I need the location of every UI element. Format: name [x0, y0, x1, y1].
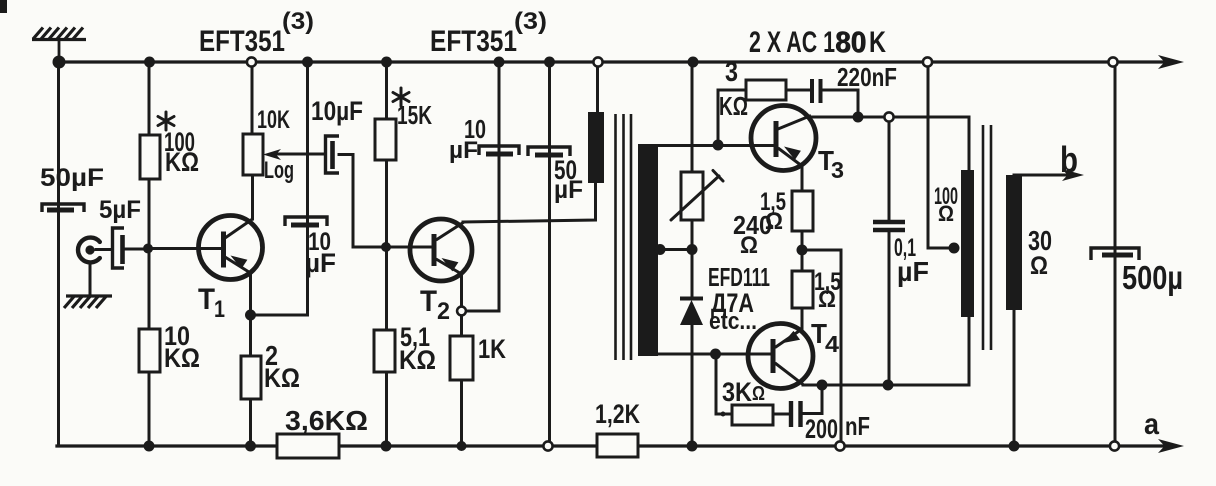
svg-text:(3): (3) — [514, 8, 547, 35]
svg-text:b: b — [1060, 139, 1078, 180]
node bottom rail 500u (ring) — [1110, 441, 1119, 450]
capacitor 5uF — [113, 228, 125, 268]
resistor R 1.2K (bottom rail) — [597, 434, 638, 457]
svg-text:2 X AC 1: 2 X AC 1 — [749, 26, 835, 59]
svg-text:EFT351: EFT351 — [430, 25, 517, 58]
wire bottom rail — [57, 444, 1163, 447]
node bottom rail 5.1K — [381, 441, 392, 452]
wire 5uF to base node — [125, 248, 148, 251]
resistor R 1.5 Ohm upper — [792, 191, 813, 231]
svg-text:KΩ: KΩ — [164, 343, 200, 373]
wire output secondary bottom — [1013, 310, 1016, 446]
capacitor 10uF T1 bypass — [285, 217, 327, 226]
svg-text:3K: 3K — [722, 377, 752, 407]
svg-text:µF: µF — [554, 176, 583, 204]
wire T2 collector to interstage primary — [463, 183, 596, 222]
node bottom rail secondary — [1009, 441, 1020, 452]
transformer TR2 core — [983, 125, 991, 350]
wire pot wiper tail — [276, 153, 325, 156]
svg-text:(3): (3) — [282, 8, 314, 35]
node emitters junction — [797, 245, 808, 256]
svg-text:etc...: etc... — [709, 308, 757, 335]
node top rail 15K — [381, 57, 392, 68]
wire T4 base from secondary bottom — [656, 353, 772, 356]
node top rail center-tap feed (ring) — [923, 57, 932, 66]
svg-text:4: 4 — [825, 331, 839, 357]
wire emitter junction to rail line — [802, 250, 841, 446]
node bottom rail emitters (ring) — [835, 441, 844, 450]
resistor R 3K (T4 feedback) — [732, 405, 773, 425]
wire output primary bottom stub — [968, 317, 971, 385]
transformer TR1 primary winding — [588, 112, 604, 183]
wire output secondary top to b — [1014, 174, 1066, 177]
ground top left — [32, 28, 86, 61]
resistor R 3.6K (bottom rail) — [277, 434, 339, 458]
wire interstage primary top — [596, 64, 599, 116]
wire 15K / T2 base / 5.1K branch — [385, 62, 388, 446]
svg-text:KΩ: KΩ — [264, 363, 300, 393]
node top rail T1 bypass — [302, 57, 313, 68]
resistor R 15K — [375, 119, 396, 160]
svg-text:3: 3 — [831, 157, 844, 183]
svg-text:Ω: Ω — [818, 286, 836, 313]
transistor T3 — [751, 106, 816, 171]
wire input jack to 5uF — [96, 248, 112, 251]
wire 1K branch — [460, 311, 463, 446]
node bias junction — [687, 244, 698, 255]
wire T1 base — [148, 247, 222, 250]
scan corner mark — [0, 0, 7, 13]
node T2 emitter (ring) — [457, 307, 466, 316]
svg-text:220nF: 220nF — [837, 62, 897, 92]
svg-text:10K: 10K — [257, 106, 290, 134]
node secondary center tap at winding — [655, 244, 666, 255]
wire T2 bypass cap vertical — [498, 62, 501, 311]
svg-text:KΩ: KΩ — [165, 147, 199, 177]
wire pot top — [251, 64, 254, 135]
wiper arrow — [263, 149, 281, 160]
wire output primary center tap feed — [928, 65, 954, 248]
node top rail 500u (ring) — [1108, 57, 1117, 66]
wire T1 emitter down — [249, 273, 252, 315]
svg-text:KΩ: KΩ — [399, 345, 436, 375]
node T2 base junction — [381, 242, 391, 252]
svg-text:Ω: Ω — [765, 208, 783, 235]
wire T4 collector line — [803, 384, 969, 387]
svg-text:µF: µF — [305, 248, 336, 278]
wire bias chain vertical — [691, 64, 694, 446]
svg-text:1,2K: 1,2K — [595, 399, 640, 429]
node top rail transformer (ring) — [593, 57, 602, 66]
capacitor 0.1uF — [873, 222, 905, 230]
node bottom rail diode — [687, 441, 698, 452]
svg-text:Ω: Ω — [752, 383, 765, 405]
svg-text:1: 1 — [214, 296, 225, 323]
wire 1.5 resistors common — [801, 231, 804, 271]
asterisk for 15K — [393, 88, 409, 106]
capacitor 10uF T2 bypass — [479, 146, 519, 155]
wire T2 emitter to bypass — [462, 310, 500, 313]
wire T3 collector line — [809, 116, 969, 119]
wire left vertical 50uF branch — [57, 62, 60, 446]
capacitor 220nF — [812, 79, 821, 103]
node top rail at ground — [53, 56, 66, 69]
svg-text:Log: Log — [264, 157, 294, 184]
resistor R 100K — [140, 135, 160, 179]
svg-text:a: a — [1144, 408, 1159, 441]
junction rings open — [247, 57, 1119, 450]
wire T3 base from secondary top — [656, 144, 775, 147]
input jack J1 — [78, 238, 100, 263]
wire T2 base — [386, 246, 435, 249]
svg-text:EFT351: EFT351 — [199, 25, 285, 58]
wire 2K branch — [249, 315, 252, 446]
node T4 collector 200nF tap — [817, 380, 828, 391]
node input to T1 base — [143, 244, 153, 254]
wire output primary top stub — [968, 117, 971, 171]
ground input — [64, 296, 112, 308]
wire T2 emitter down — [460, 274, 463, 311]
transformer TR2 primary winding — [961, 170, 974, 317]
wire 10uF coupling to down-leg — [339, 155, 386, 248]
resistor R 2K — [241, 356, 261, 399]
diode D1 — [680, 299, 703, 326]
node T4 base tap — [710, 349, 721, 360]
wire T1 emitter to bypass cap — [251, 314, 307, 317]
wire 500u branch — [1114, 62, 1117, 446]
wire jack to input ground — [89, 263, 92, 296]
transistor T2 — [410, 219, 472, 281]
svg-text:Ω: Ω — [740, 232, 758, 259]
node top rail bias — [688, 57, 699, 68]
svg-text:µF: µF — [449, 137, 478, 164]
svg-text:Ω: Ω — [938, 201, 954, 226]
svg-text:Ω: Ω — [1030, 252, 1048, 280]
node top rail 50uF — [544, 57, 555, 68]
svg-text:KΩ: KΩ — [719, 91, 748, 121]
resistor R 5.1K — [374, 330, 395, 372]
node bottom rail 1K — [457, 441, 467, 451]
wire 3K to 220nF — [786, 89, 809, 92]
transformer TR1 core — [616, 114, 632, 360]
svg-text:500µ: 500µ — [1122, 259, 1183, 296]
svg-text:10µF: 10µF — [311, 96, 363, 126]
node 0.1uF top (ring) — [884, 112, 893, 121]
output b arrow — [1062, 169, 1084, 181]
wire 200nF right to T4 collector — [803, 385, 822, 414]
wire secondary center tap — [656, 248, 692, 251]
svg-text:1K: 1K — [478, 334, 506, 364]
svg-text:µF: µF — [897, 256, 929, 287]
wire 0.1uF vertical — [888, 117, 891, 385]
wire T1 bypass cap vertical — [306, 62, 309, 315]
wire top rail — [59, 60, 1163, 63]
node top rail 100K — [144, 57, 155, 68]
potentiometer 10K — [243, 134, 263, 175]
resistor R 1K — [450, 336, 473, 380]
transistor T4 — [748, 324, 813, 389]
capacitor 50uF supply — [528, 147, 570, 156]
asterisk for 100K — [158, 112, 174, 130]
wire pot bottom to T1 collector — [251, 174, 254, 219]
junction dots filled — [53, 56, 1020, 452]
wire 3K T4 to 200nF — [773, 413, 789, 416]
node bottom rail 50uF (ring) — [543, 441, 552, 450]
rheostat 240 Ohm — [681, 172, 703, 220]
svg-text:nF: nF — [845, 411, 870, 441]
capacitor 50uF input (left branch) — [42, 204, 84, 212]
node 0.1uF bottom — [883, 380, 894, 391]
wire T3 emitter to 1.5 — [801, 166, 804, 191]
transistor T1 — [199, 216, 263, 280]
capacitor 500u — [1091, 248, 1139, 260]
node primary center tap — [949, 243, 960, 254]
wire 50uF supply branch — [548, 62, 551, 446]
node bottom rail 2K — [245, 441, 256, 452]
svg-text:3,6KΩ: 3,6KΩ — [285, 405, 368, 436]
svg-text:15K: 15K — [397, 100, 432, 130]
wire 220nF right to collector — [823, 90, 858, 117]
node top rail pot (ring) — [247, 57, 256, 66]
node T3 base tap — [713, 140, 724, 151]
resistor R 3K (T3 feedback) — [746, 80, 786, 100]
node 220nF tap on T3 collector — [853, 112, 864, 123]
svg-text:200: 200 — [805, 414, 838, 444]
svg-text:50µF: 50µF — [40, 164, 104, 192]
wire 3K feedback T4 left — [716, 354, 732, 414]
wire 3K feedback T3 left — [718, 90, 746, 145]
node top rail T2 bypass — [494, 57, 505, 68]
wire T4 emitter to 1.5 — [801, 308, 804, 330]
wire 100K/10K branch — [148, 62, 151, 446]
top rail arrow — [1158, 55, 1184, 69]
bottom rail arrow — [1158, 439, 1184, 453]
svg-text:T: T — [420, 285, 437, 318]
resistor R 1.5 Ohm lower — [792, 271, 813, 308]
transformer TR2 secondary winding — [1006, 175, 1022, 310]
transformer TR1 secondary winding — [638, 144, 658, 356]
svg-text:T: T — [198, 283, 215, 316]
node 3K corner dot — [721, 412, 726, 417]
capacitor 200nF — [791, 401, 801, 427]
capacitor 10uF coupling — [326, 136, 340, 173]
resistor R 10K lower — [139, 329, 160, 372]
node bottom rail 10K — [144, 441, 155, 452]
node T1 emitter junction — [245, 310, 256, 321]
svg-text:5µF: 5µF — [99, 196, 141, 224]
svg-text:3: 3 — [725, 56, 738, 87]
svg-text:2: 2 — [437, 298, 450, 325]
svg-text:K: K — [869, 26, 886, 59]
svg-text:80: 80 — [836, 27, 867, 60]
